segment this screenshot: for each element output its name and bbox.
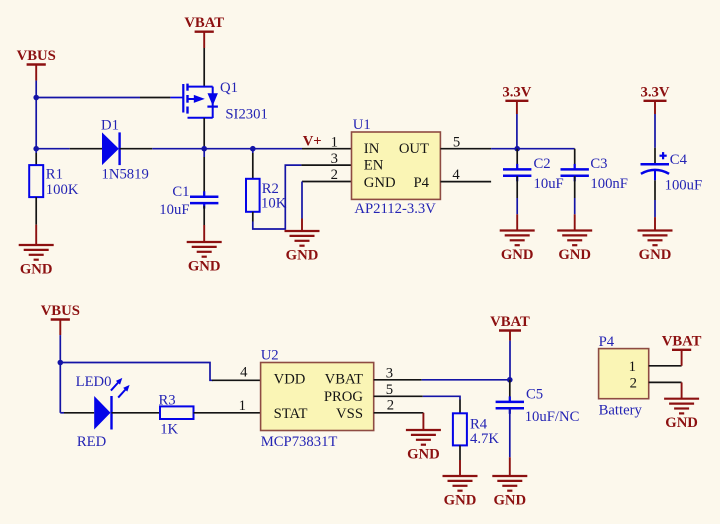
svg-text:10K: 10K [261, 196, 287, 212]
svg-text:VSS: VSS [336, 406, 363, 422]
svg-text:GND: GND [188, 259, 221, 275]
svg-text:3: 3 [331, 151, 338, 167]
svg-text:VDD: VDD [274, 372, 306, 388]
svg-text:GND: GND [639, 247, 672, 263]
svg-text:GND: GND [407, 447, 440, 463]
svg-text:3.3V: 3.3V [641, 84, 670, 100]
svg-text:PROG: PROG [324, 389, 364, 405]
svg-text:VBUS: VBUS [41, 303, 80, 319]
svg-text:1: 1 [331, 134, 338, 150]
svg-text:GND: GND [286, 248, 319, 264]
svg-text:2: 2 [387, 398, 394, 414]
svg-text:4: 4 [240, 365, 248, 381]
svg-text:C3: C3 [590, 156, 607, 172]
svg-text:VBAT: VBAT [490, 314, 530, 330]
svg-text:10uF/NC: 10uF/NC [525, 409, 580, 425]
svg-text:4.7K: 4.7K [470, 431, 499, 447]
svg-text:GND: GND [493, 493, 526, 509]
svg-text:1K: 1K [160, 421, 178, 437]
svg-text:2: 2 [331, 167, 338, 183]
svg-text:1: 1 [629, 359, 636, 375]
svg-text:D1: D1 [101, 118, 119, 134]
svg-text:Battery: Battery [599, 402, 643, 418]
svg-text:R3: R3 [159, 392, 176, 408]
svg-text:U2: U2 [261, 347, 279, 363]
svg-text:100uF: 100uF [665, 178, 703, 194]
svg-text:AP2112-3.3V: AP2112-3.3V [354, 201, 436, 217]
svg-text:V+: V+ [303, 133, 322, 149]
svg-text:P4: P4 [413, 175, 429, 191]
svg-text:VBAT: VBAT [325, 372, 363, 388]
svg-text:VBUS: VBUS [17, 48, 56, 64]
svg-text:100K: 100K [46, 182, 79, 198]
svg-text:GND: GND [20, 262, 53, 278]
svg-text:C5: C5 [526, 386, 543, 402]
svg-text:OUT: OUT [399, 141, 429, 157]
svg-text:10uF: 10uF [159, 202, 189, 218]
svg-text:R1: R1 [46, 167, 63, 183]
svg-text:VBAT: VBAT [662, 333, 702, 349]
svg-text:U1: U1 [353, 117, 371, 133]
svg-text:GND: GND [558, 247, 591, 263]
svg-text:Q1: Q1 [220, 80, 238, 96]
svg-text:1N5819: 1N5819 [102, 167, 149, 183]
svg-text:C1: C1 [172, 184, 189, 200]
svg-text:3.3V: 3.3V [502, 84, 531, 100]
svg-text:RED: RED [77, 434, 107, 450]
svg-text:VBAT: VBAT [184, 15, 224, 31]
svg-text:SI2301: SI2301 [225, 107, 267, 123]
svg-text:P4: P4 [599, 334, 615, 350]
svg-text:C4: C4 [670, 152, 688, 168]
svg-text:C2: C2 [534, 156, 551, 172]
svg-text:GND: GND [364, 175, 396, 191]
svg-text:LED0: LED0 [76, 374, 112, 390]
svg-text:IN: IN [364, 141, 380, 157]
svg-text:GND: GND [444, 493, 477, 509]
svg-text:2: 2 [630, 375, 637, 391]
svg-text:GND: GND [665, 415, 698, 431]
svg-text:EN: EN [364, 158, 384, 174]
svg-text:100nF: 100nF [590, 176, 628, 192]
svg-text:1: 1 [239, 398, 246, 414]
svg-text:4: 4 [452, 167, 460, 183]
svg-text:STAT: STAT [274, 406, 308, 422]
svg-text:10uF: 10uF [534, 176, 564, 192]
svg-text:MCP73831T: MCP73831T [261, 434, 338, 450]
svg-text:GND: GND [501, 247, 534, 263]
